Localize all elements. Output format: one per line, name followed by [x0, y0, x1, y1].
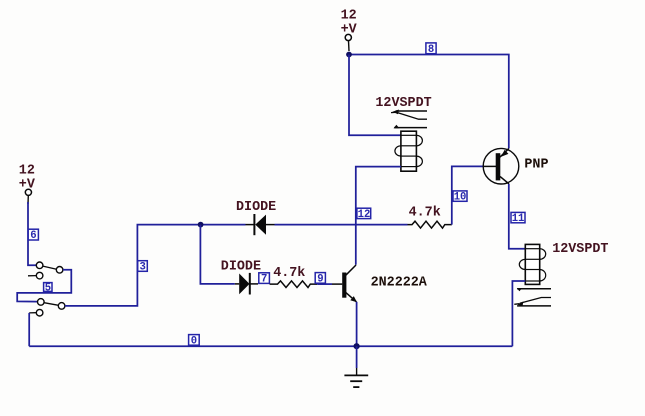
svg-text:4.7k: 4.7k	[409, 205, 441, 220]
wire net 0: ground rail	[29, 345, 512, 347]
wire net 3: S2 to diode junction	[65, 225, 246, 306]
wire: Q1 emitter to ground rail	[356, 302, 358, 346]
node 11	[511, 212, 525, 225]
wire net 12: K1 coil pin 2 to Q1 collector	[356, 167, 401, 265]
transistor Q2 PNP	[483, 148, 519, 184]
svg-text:4.7k: 4.7k	[273, 266, 305, 281]
wire net 6: +12V to switch S1	[28, 202, 36, 265]
relay K1 coil	[395, 131, 423, 171]
diode D1	[246, 214, 275, 235]
switch S2 (SPDT)	[29, 299, 65, 316]
node 7	[259, 273, 270, 286]
svg-text:2N2222A: 2N2222A	[371, 276, 428, 291]
wire net 8: top rail from +12V to PNP emitter	[349, 55, 509, 149]
wire net 5: S1 to S2	[17, 270, 71, 302]
svg-text:0: 0	[191, 335, 197, 347]
svg-text:6: 6	[30, 230, 36, 242]
wire net 10: R2 to Q2 base	[452, 166, 484, 224]
node 9	[315, 273, 325, 286]
node 5	[44, 282, 52, 294]
svg-text:12VSPDT: 12VSPDT	[375, 96, 431, 111]
svg-text:3: 3	[140, 262, 146, 274]
svg-text:8: 8	[428, 44, 434, 56]
resistor R1 4.7k	[270, 281, 318, 288]
power terminal +12V (left)	[19, 164, 36, 204]
node 10	[453, 191, 467, 204]
junction at ground rail	[354, 343, 360, 349]
svg-text:12: 12	[341, 9, 357, 24]
transistor Q1 2N2222A (NPN)	[332, 265, 357, 302]
power terminal +12V (top)	[341, 9, 358, 51]
relay K1 contact set	[391, 110, 427, 129]
svg-text:12VSPDT: 12VSPDT	[552, 242, 608, 257]
svg-text:PNP: PNP	[524, 158, 548, 173]
node 12	[357, 208, 371, 221]
diode D2	[235, 273, 258, 295]
svg-text:5: 5	[45, 282, 51, 294]
svg-text:DIODE: DIODE	[236, 200, 276, 215]
relay K2 contact set	[514, 288, 551, 306]
wire: rail junction to ground symbol	[356, 346, 358, 368]
svg-text:DIODE: DIODE	[221, 259, 261, 274]
wire: junction to diode D2 branch	[200, 225, 234, 284]
ground	[344, 368, 368, 387]
junction at diode branch	[198, 222, 204, 228]
node 3	[138, 261, 148, 274]
node 0	[189, 335, 200, 348]
wire: R1 to Q1 base	[317, 283, 332, 285]
wire: K2 coil pin 2 to ground rail	[512, 281, 525, 346]
svg-text:10: 10	[454, 192, 467, 204]
wire net 11: Q2 emitter to relay K2 coil pin 1	[509, 184, 526, 249]
wire: D1 to resistor R2 (crosses net 12)	[275, 224, 408, 226]
switch S1 (SPDT)	[28, 262, 63, 279]
node 8	[426, 43, 436, 56]
wire from top rail to relay K1 coil pin 1	[349, 55, 401, 136]
relay K2 coil	[519, 244, 545, 284]
svg-text:12: 12	[358, 209, 371, 221]
svg-text:11: 11	[512, 213, 525, 225]
svg-text:7: 7	[261, 274, 267, 286]
node 6	[28, 229, 38, 242]
junction at top rail	[346, 52, 352, 58]
resistor R2 4.7k	[408, 221, 452, 228]
wire: S2 throw to ground rail	[28, 313, 30, 346]
